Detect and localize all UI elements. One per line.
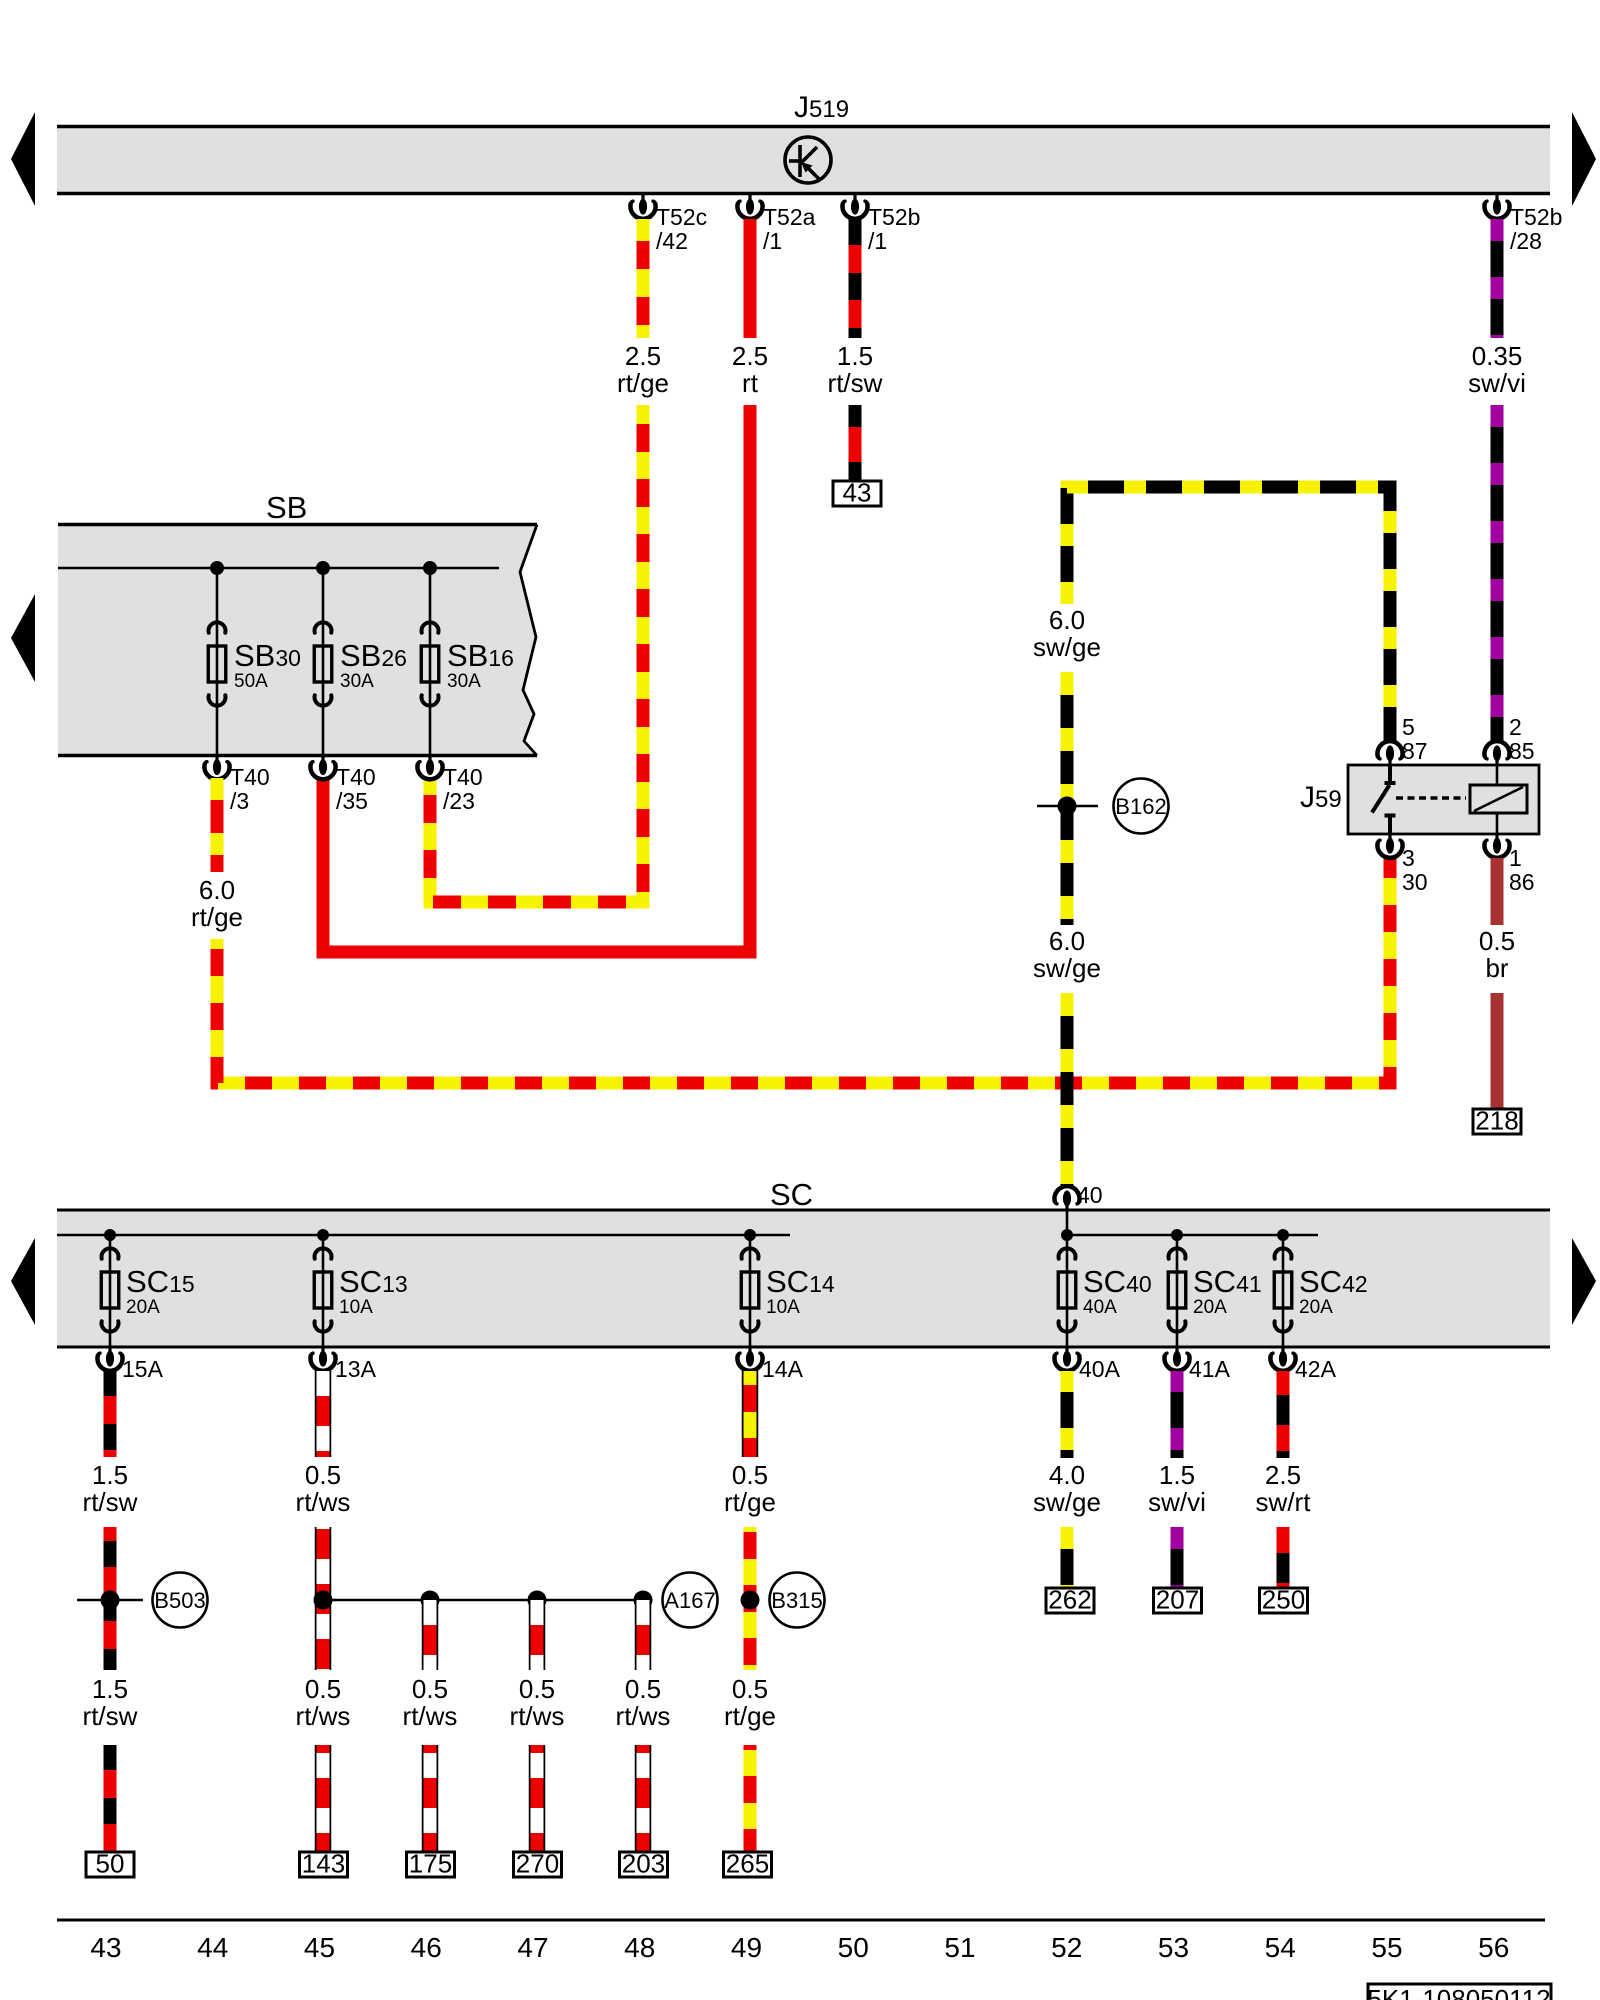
- svg-text:/42: /42: [656, 228, 688, 254]
- svg-text:10A: 10A: [766, 1297, 800, 1318]
- connector T52b/28 on J519: [1484, 195, 1509, 219]
- svg-text:rt/ws: rt/ws: [616, 1701, 671, 1731]
- SC right internal bus: [1067, 1234, 1318, 1237]
- terminal box 265: [724, 1849, 772, 1879]
- svg-text:0.5: 0.5: [519, 1674, 555, 1704]
- svg-text:T40: T40: [443, 764, 483, 790]
- svg-text:B315: B315: [771, 1588, 822, 1613]
- svg-text:rt/ge: rt/ge: [724, 1487, 776, 1517]
- svg-text:13A: 13A: [335, 1356, 377, 1382]
- svg-text:46: 46: [411, 1932, 442, 1963]
- fuse SC40 40A: [1061, 1229, 1073, 1241]
- svg-text:14A: 14A: [762, 1356, 804, 1382]
- connector 14A on SC: [737, 1347, 762, 1371]
- svg-text:1.5: 1.5: [1159, 1460, 1195, 1490]
- svg-text:2: 2: [1509, 714, 1522, 740]
- svg-text:T40: T40: [230, 764, 270, 790]
- svg-text:1.5: 1.5: [92, 1674, 128, 1704]
- svg-text:/35: /35: [336, 788, 368, 814]
- J59 pin 5/87: [1377, 741, 1402, 765]
- svg-text:/1: /1: [868, 228, 887, 254]
- svg-text:0.5: 0.5: [732, 1674, 768, 1704]
- fuse SB26 30A: [316, 561, 330, 575]
- control module J519 bar: [57, 127, 1550, 194]
- svg-text:52: 52: [1051, 1932, 1082, 1963]
- svg-text:30A: 30A: [340, 671, 374, 692]
- terminal box 218: [1473, 1106, 1521, 1136]
- terminal box 175: [407, 1849, 455, 1879]
- J59 pin 1/86: [1484, 834, 1509, 858]
- wire 0.5 br from J59 pin 86 to terminal 218: [1491, 858, 1504, 925]
- fuse SB16 30A: [423, 561, 437, 575]
- svg-text:rt/ge: rt/ge: [724, 1701, 776, 1731]
- svg-text:20A: 20A: [1193, 1297, 1227, 1318]
- wire 2.5 rt/ge from T52c/42 to T40/23: [637, 219, 650, 338]
- svg-text:4.0: 4.0: [1049, 1460, 1085, 1490]
- svg-text:30A: 30A: [447, 671, 481, 692]
- svg-text:J519: J519: [794, 91, 849, 124]
- svg-text:rt/sw: rt/sw: [83, 1487, 138, 1517]
- svg-text:207: 207: [1156, 1585, 1199, 1615]
- svg-text:40A: 40A: [1083, 1297, 1117, 1318]
- svg-text:15A: 15A: [122, 1356, 164, 1382]
- svg-text:0.35: 0.35: [1472, 341, 1523, 371]
- svg-text:/23: /23: [443, 788, 475, 814]
- connector 40A on SC: [1054, 1347, 1079, 1371]
- svg-text:10A: 10A: [339, 1297, 373, 1318]
- wire 6.0 rt/ge from T40/3 to J59 pin 30: [211, 778, 224, 872]
- terminal box 50: [86, 1849, 134, 1879]
- svg-text:rt: rt: [742, 368, 759, 398]
- svg-text:sw/ge: sw/ge: [1033, 1487, 1101, 1517]
- svg-text:rt/ws: rt/ws: [296, 1487, 351, 1517]
- svg-text:3: 3: [1402, 845, 1415, 871]
- svg-text:rt/sw: rt/sw: [828, 368, 883, 398]
- svg-text:20A: 20A: [1299, 1297, 1333, 1318]
- wire 0.5 rt/ws from junction to terminal 175: [422, 1600, 439, 1670]
- svg-text:1.5: 1.5: [92, 1460, 128, 1490]
- svg-text:A167: A167: [664, 1588, 715, 1613]
- svg-text:B162: B162: [1115, 794, 1166, 819]
- svg-text:rt/sw: rt/sw: [83, 1701, 138, 1731]
- svg-text:0.5: 0.5: [732, 1460, 768, 1490]
- connector T52b/1 on J519: [842, 195, 867, 219]
- svg-text:SC: SC: [770, 1177, 813, 1212]
- svg-text:T52a: T52a: [763, 204, 816, 230]
- node A167: [663, 1573, 718, 1628]
- svg-text:0.5: 0.5: [1479, 926, 1515, 956]
- SC left internal bus: [57, 1234, 790, 1237]
- wire 2.5 rt from T52a/1 to T40/35: [744, 219, 757, 338]
- wire 0.5 rt/ws from junction to terminal 270: [529, 1600, 546, 1670]
- left arrow (continuation) SC: [11, 1238, 35, 1325]
- svg-text:0.5: 0.5: [412, 1674, 448, 1704]
- svg-text:6.0: 6.0: [1049, 605, 1085, 635]
- svg-text:/28: /28: [1510, 228, 1542, 254]
- node B162: [1037, 805, 1098, 808]
- svg-text:SB: SB: [266, 490, 307, 525]
- node B315: [741, 1591, 760, 1610]
- svg-text:51: 51: [944, 1932, 975, 1963]
- left arrow (continuation) top: [11, 112, 35, 206]
- svg-text:218: 218: [1475, 1106, 1518, 1136]
- svg-text:T40: T40: [336, 764, 376, 790]
- svg-text:sw/rt: sw/rt: [1256, 1487, 1312, 1517]
- J59 pin 3/30: [1377, 834, 1402, 858]
- svg-text:br: br: [1485, 953, 1508, 983]
- terminal box 262: [1046, 1585, 1094, 1615]
- connector T52a/1 on J519: [737, 195, 762, 219]
- terminal box 143: [300, 1849, 348, 1879]
- svg-text:53: 53: [1158, 1932, 1189, 1963]
- svg-text:143: 143: [302, 1849, 345, 1879]
- svg-text:40: 40: [1077, 1182, 1103, 1208]
- svg-text:rt/ws: rt/ws: [296, 1701, 351, 1731]
- svg-text:42A: 42A: [1295, 1356, 1337, 1382]
- K symbol in J519: [785, 137, 831, 183]
- svg-text:56: 56: [1478, 1932, 1509, 1963]
- fuse SC13 10A: [317, 1229, 329, 1241]
- svg-text:2.5: 2.5: [625, 341, 661, 371]
- connector T52c/42 on J519: [630, 195, 655, 219]
- svg-text:262: 262: [1048, 1585, 1091, 1615]
- svg-text:sw/ge: sw/ge: [1033, 953, 1101, 983]
- svg-text:43: 43: [90, 1932, 121, 1963]
- node B503: [77, 1599, 143, 1602]
- svg-text:43: 43: [843, 478, 872, 508]
- J59 pin 2/85: [1484, 741, 1509, 765]
- connector T40/3 on SB: [204, 756, 229, 780]
- svg-text:sw/vi: sw/vi: [1468, 368, 1526, 398]
- svg-text:87: 87: [1402, 738, 1428, 764]
- svg-text:1: 1: [1509, 845, 1522, 871]
- svg-text:2.5: 2.5: [1265, 1460, 1301, 1490]
- svg-text:55: 55: [1371, 1932, 1402, 1963]
- bottom channel scale line: [57, 1919, 1545, 1922]
- right arrow (continuation) top: [1572, 112, 1596, 206]
- J59 switch contact (30-87): [1372, 765, 1466, 834]
- wire 2.5 sw/rt from SC42 to terminal 250: [1277, 1371, 1290, 1458]
- svg-text:50: 50: [96, 1849, 125, 1879]
- wire 6.0 sw/ge vertical + top run to J59 pin 87: [1067, 487, 1390, 741]
- fuse box SC: [57, 1210, 1550, 1347]
- svg-text:T52c: T52c: [656, 204, 707, 230]
- fuse SC14 10A: [744, 1229, 756, 1241]
- drawing number box 5K1-108050112: [1368, 1984, 1551, 2000]
- svg-text:0.5: 0.5: [625, 1674, 661, 1704]
- svg-text:0.5: 0.5: [305, 1674, 341, 1704]
- svg-text:49: 49: [731, 1932, 762, 1963]
- svg-text:47: 47: [517, 1932, 548, 1963]
- svg-text:sw/ge: sw/ge: [1033, 632, 1101, 662]
- svg-text:41A: 41A: [1189, 1356, 1231, 1382]
- svg-text:2.5: 2.5: [732, 341, 768, 371]
- svg-text:/1: /1: [763, 228, 782, 254]
- svg-text:/3: /3: [230, 788, 249, 814]
- wire 0.35 sw/vi from T52b/28 to J59 pin 85: [1491, 219, 1504, 338]
- svg-text:rt/ge: rt/ge: [191, 902, 243, 932]
- svg-text:1.5: 1.5: [837, 341, 873, 371]
- connector 41A on SC: [1164, 1347, 1189, 1371]
- svg-text:54: 54: [1265, 1932, 1296, 1963]
- left arrow (continuation) SB: [11, 594, 35, 682]
- terminal box 43: [833, 478, 881, 508]
- svg-text:175: 175: [409, 1849, 452, 1879]
- J59 coil (85-86): [1470, 765, 1527, 834]
- svg-text:86: 86: [1509, 869, 1535, 895]
- terminal box 250: [1260, 1585, 1308, 1615]
- svg-text:rt/ws: rt/ws: [510, 1701, 565, 1731]
- svg-text:40A: 40A: [1079, 1356, 1121, 1382]
- connector 42A on SC: [1270, 1347, 1295, 1371]
- wire 1.5 sw/vi from SC41 to terminal 207: [1171, 1371, 1184, 1458]
- svg-text:rt/ws: rt/ws: [403, 1701, 458, 1731]
- svg-text:0.5: 0.5: [305, 1460, 341, 1490]
- svg-text:5K1-108050112: 5K1-108050112: [1367, 1984, 1550, 2000]
- svg-text:44: 44: [197, 1932, 228, 1963]
- svg-text:20A: 20A: [126, 1297, 160, 1318]
- svg-text:30: 30: [1402, 869, 1428, 895]
- connector T40/23 on SB: [417, 756, 442, 780]
- svg-text:45: 45: [304, 1932, 335, 1963]
- svg-text:270: 270: [516, 1849, 559, 1879]
- terminal box 203: [620, 1849, 668, 1879]
- connector 40 on SC: [1066, 1210, 1069, 1235]
- fuse SC15 20A: [104, 1229, 116, 1241]
- connector 13A on SC: [310, 1347, 335, 1371]
- connector T40/35 on SB: [310, 756, 335, 780]
- svg-text:5: 5: [1402, 714, 1415, 740]
- svg-text:T52b: T52b: [868, 204, 920, 230]
- wire 6.0 sw/ge lower section to SC connector 40: [1061, 993, 1074, 1186]
- svg-text:B503: B503: [154, 1588, 205, 1613]
- fuse SC42 20A: [1277, 1229, 1289, 1241]
- fuse SC41 20A: [1171, 1229, 1183, 1241]
- svg-text:6.0: 6.0: [199, 875, 235, 905]
- wire 4.0 sw/ge from SC40 to terminal 262: [1061, 1371, 1074, 1458]
- relay J59: [1348, 765, 1539, 834]
- svg-text:50A: 50A: [234, 671, 268, 692]
- connector 15A on SC: [97, 1347, 122, 1371]
- svg-text:rt/ge: rt/ge: [617, 368, 669, 398]
- fuse SB30 50A: [210, 561, 224, 575]
- terminal box 207: [1154, 1585, 1202, 1615]
- SB internal bus: [58, 567, 499, 570]
- wire 1.5 rt/sw from SC15 to terminal 50: [104, 1371, 117, 1457]
- svg-text:265: 265: [726, 1849, 769, 1879]
- svg-text:6.0: 6.0: [1049, 926, 1085, 956]
- wire 1.5 rt/sw from T52b/1 to terminal 43: [849, 219, 862, 338]
- svg-text:203: 203: [622, 1849, 665, 1879]
- svg-text:T52b: T52b: [1510, 204, 1562, 230]
- svg-text:250: 250: [1262, 1585, 1305, 1615]
- fuse box SB: [58, 525, 537, 756]
- wire 0.5 rt/ws from junction to terminal 203: [635, 1600, 652, 1670]
- junction bus at A167: [323, 1599, 643, 1602]
- svg-text:48: 48: [624, 1932, 655, 1963]
- svg-text:50: 50: [838, 1932, 869, 1963]
- wire 0.5 rt/ge from SC14 to terminal 265: [742, 1371, 759, 1457]
- wire 0.5 rt/ws from SC13 to terminal 143: [315, 1371, 332, 1457]
- svg-text:85: 85: [1509, 738, 1535, 764]
- svg-text:J59: J59: [1300, 781, 1342, 814]
- terminal box 270: [514, 1849, 562, 1879]
- right arrow (continuation) SC: [1572, 1238, 1596, 1325]
- svg-text:sw/vi: sw/vi: [1148, 1487, 1206, 1517]
